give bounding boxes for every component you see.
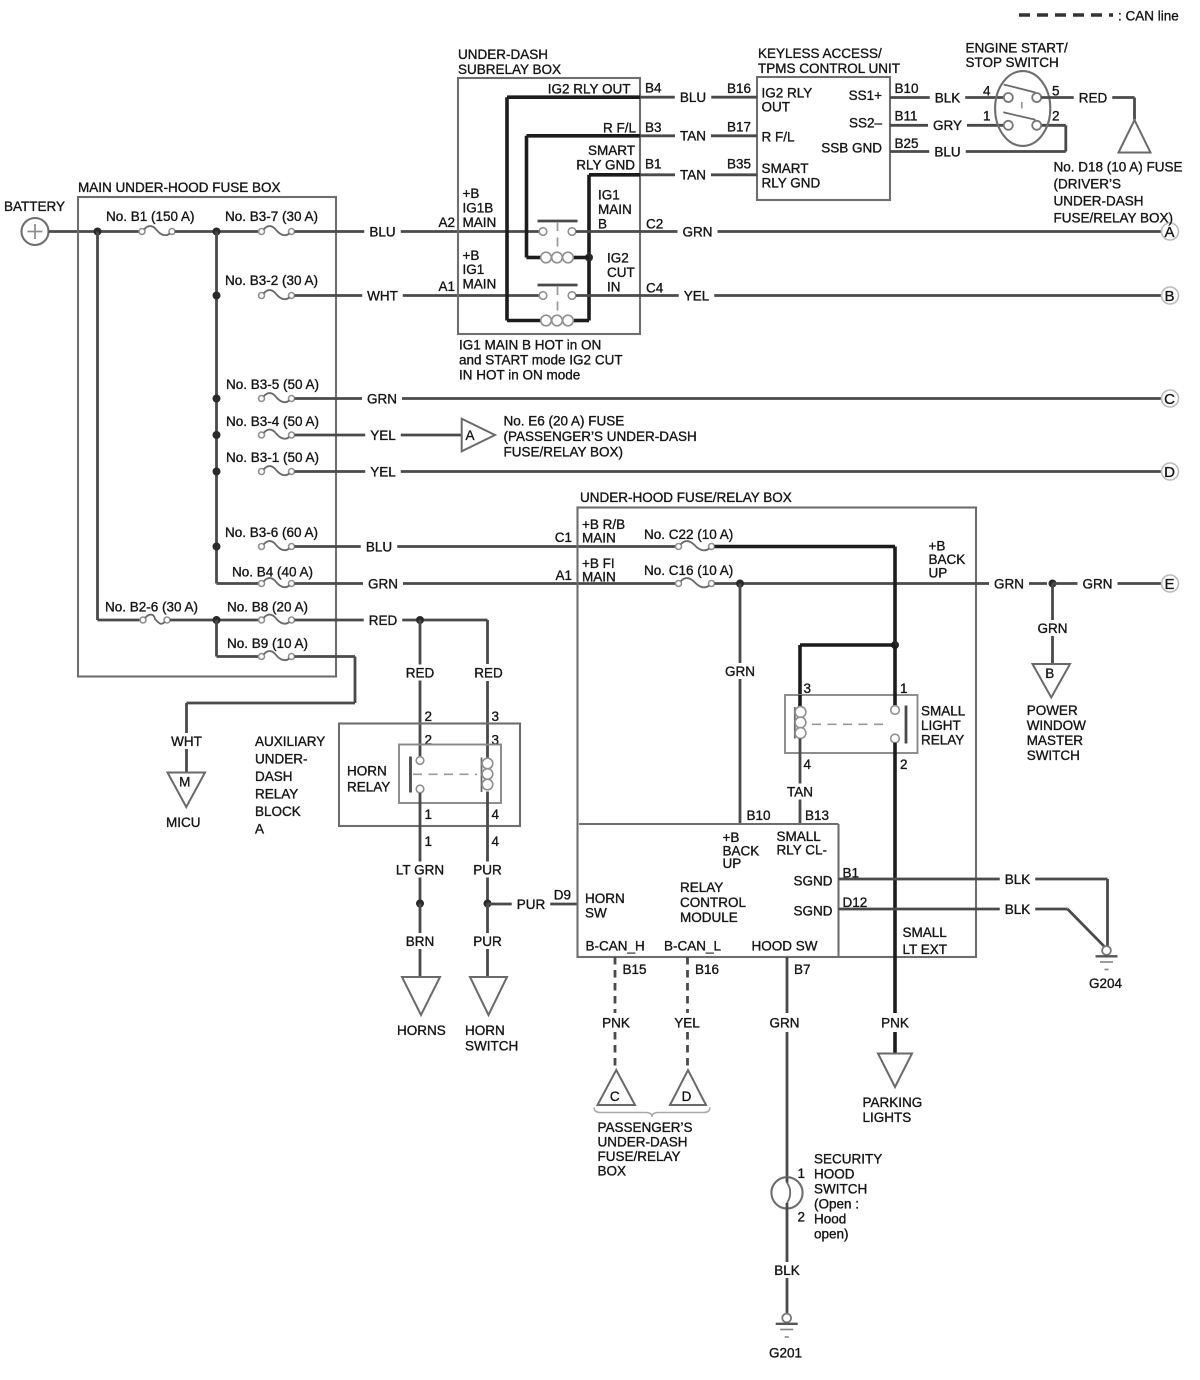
fuse B3-1 50A <box>259 469 265 475</box>
wire TAN relay pin4 to module B13 <box>799 753 802 784</box>
svg-text:MAIN: MAIN <box>582 570 616 585</box>
svg-text:SMART: SMART <box>588 143 635 158</box>
svg-text:RELAY: RELAY <box>680 880 723 895</box>
connector circle C <box>1162 390 1179 407</box>
svg-text:OUT: OUT <box>762 100 791 115</box>
connector triangle M MICU <box>168 773 206 808</box>
svg-text:YEL: YEL <box>674 1015 700 1030</box>
svg-text:FUSE/RELAY BOX): FUSE/RELAY BOX) <box>504 445 624 460</box>
wire GRY to switch pin 1 <box>890 124 928 127</box>
wire SGND BLK to ground <box>839 878 1000 881</box>
svg-text:PNK: PNK <box>602 1015 630 1030</box>
svg-text:1: 1 <box>798 1166 806 1181</box>
svg-text:MAIN: MAIN <box>582 531 616 546</box>
svg-text:BLOCK: BLOCK <box>255 804 301 819</box>
junction node horns <box>416 900 424 908</box>
connector triangle HORN SWITCH <box>470 977 507 1015</box>
wire B3-7 to A2 subrelay BLU <box>295 230 365 233</box>
svg-text:2: 2 <box>900 757 908 772</box>
svg-text:UNDER-: UNDER- <box>255 752 308 767</box>
junction node B3-4 <box>213 431 221 439</box>
svg-text:No. B3-2 (30 A): No. B3-2 (30 A) <box>225 273 318 288</box>
svg-text:D: D <box>682 1089 692 1104</box>
svg-text:RED: RED <box>474 665 503 680</box>
CAN line legend dashed sample <box>1019 13 1113 17</box>
svg-text:CONTROL: CONTROL <box>680 895 746 910</box>
svg-text:IG1 MAIN B HOT in ON: IG1 MAIN B HOT in ON <box>459 338 601 353</box>
switch pin 2 contact <box>1032 121 1041 130</box>
small light relay contact <box>893 645 897 706</box>
relay 2 coil <box>541 315 552 326</box>
vertical bus wire in fuse box <box>215 232 218 584</box>
svg-text:PNK: PNK <box>881 1015 909 1030</box>
svg-text:GRN: GRN <box>1038 621 1068 636</box>
junction node horn switch branch <box>484 900 492 908</box>
svg-text:MAIN: MAIN <box>598 202 632 217</box>
svg-text:2: 2 <box>798 1210 806 1225</box>
fuse B3-5 50A <box>259 396 265 402</box>
svg-text:HOOD: HOOD <box>814 1167 855 1182</box>
svg-text:BLK: BLK <box>774 1263 800 1278</box>
svg-text:B1: B1 <box>645 157 662 172</box>
svg-text:B17: B17 <box>727 120 751 135</box>
dark wire IG2 RLY OUT <box>507 95 640 99</box>
dark wire to relay pin 3 <box>800 643 895 647</box>
connector triangle C <box>598 1070 636 1105</box>
fuse B3-2 30A <box>259 293 265 299</box>
wire RED switch pin 5 to D18 fuse <box>1041 96 1074 99</box>
svg-text:MICU: MICU <box>166 815 201 830</box>
svg-text:UNDER-DASH: UNDER-DASH <box>1054 194 1144 209</box>
svg-text:M: M <box>179 775 190 790</box>
svg-text:GRN: GRN <box>367 391 397 406</box>
svg-text:RLY GND: RLY GND <box>762 176 821 191</box>
svg-text:B4: B4 <box>645 81 662 96</box>
wire relay1 to C2 GRN connector A <box>576 230 678 233</box>
svg-text:No. B1 (150 A): No. B1 (150 A) <box>106 209 195 224</box>
svg-text:B11: B11 <box>895 109 918 124</box>
svg-text:BLK: BLK <box>1005 902 1031 917</box>
junction node RED split <box>416 616 424 624</box>
svg-text:C2: C2 <box>646 217 663 232</box>
svg-text:B10: B10 <box>895 81 919 96</box>
connector circle E <box>1162 575 1179 592</box>
svg-text:IG1: IG1 <box>463 262 485 277</box>
switch pin 1 contact <box>1004 121 1013 130</box>
svg-text:A1: A1 <box>438 279 455 294</box>
svg-text:SUBRELAY BOX: SUBRELAY BOX <box>458 62 561 77</box>
svg-text:IG2 RLY OUT: IG2 RLY OUT <box>548 82 631 97</box>
junction node B3-6 <box>213 543 221 551</box>
svg-text:RELAY: RELAY <box>255 787 298 802</box>
wire BLK to ground G201 <box>786 1203 789 1262</box>
svg-text:A: A <box>255 822 264 837</box>
svg-text:GRN: GRN <box>725 664 755 679</box>
horn relay box <box>399 745 501 804</box>
under-dash subrelay box <box>458 78 640 334</box>
svg-text:SMALL: SMALL <box>903 925 948 940</box>
svg-text:No. C16 (10 A): No. C16 (10 A) <box>644 563 733 578</box>
svg-text:No. B9 (10 A): No. B9 (10 A) <box>227 636 308 651</box>
relay 2 coil wires <box>574 319 590 323</box>
svg-text:GRN: GRN <box>994 576 1024 591</box>
wire LT GRN from horn relay pin 1 <box>419 793 422 862</box>
svg-text:No. E6 (20 A) FUSE: No. E6 (20 A) FUSE <box>504 414 625 429</box>
wire WHT down to MICU <box>185 703 188 733</box>
svg-text:UNDER-HOOD FUSE/RELAY BOX: UNDER-HOOD FUSE/RELAY BOX <box>580 490 792 505</box>
svg-text:No. B2-6 (30 A): No. B2-6 (30 A) <box>105 600 198 615</box>
svg-text:GRY: GRY <box>933 118 962 133</box>
svg-text:TAN: TAN <box>680 168 706 183</box>
svg-text:B7: B7 <box>794 962 811 977</box>
svg-text:PASSENGER’S: PASSENGER’S <box>598 1120 693 1135</box>
connector circle B <box>1162 287 1179 304</box>
wire GRN to power window master switch <box>976 582 989 585</box>
svg-text:B3: B3 <box>645 120 662 135</box>
ground G201 <box>782 1314 791 1323</box>
svg-text:BLU: BLU <box>680 90 706 105</box>
wire B3-2 to A1 subrelay WHT <box>295 294 363 297</box>
fuse B2-6 30A <box>98 619 141 622</box>
svg-text:YEL: YEL <box>370 464 396 479</box>
svg-text:RELAY: RELAY <box>347 780 390 795</box>
svg-text:LIGHT: LIGHT <box>921 718 961 733</box>
svg-text:UP: UP <box>929 566 948 581</box>
svg-text:WHT: WHT <box>367 288 398 303</box>
svg-text:B16: B16 <box>695 962 719 977</box>
wire PUR from horn relay pin 4 <box>486 792 489 862</box>
svg-text:PUR: PUR <box>473 934 502 949</box>
svg-text:GRN: GRN <box>770 1015 800 1030</box>
junction node E row <box>1049 580 1057 588</box>
connector circle D <box>1162 463 1179 480</box>
svg-text:TAN: TAN <box>787 784 813 799</box>
svg-text:POWER: POWER <box>1027 703 1078 718</box>
svg-text:B25: B25 <box>895 136 919 151</box>
svg-text:No. B3-7 (30 A): No. B3-7 (30 A) <box>225 209 318 224</box>
wire B3-6 BLU to C1 under-hood box <box>295 545 361 548</box>
relay 2 IG2 CUT IN contacts <box>538 284 578 287</box>
svg-text:KEYLESS ACCESS/: KEYLESS ACCESS/ <box>758 46 882 61</box>
svg-text:LT EXT: LT EXT <box>903 942 948 957</box>
fuse B8 20A <box>259 617 265 623</box>
junction node B3-1 <box>213 468 221 476</box>
svg-text:A: A <box>465 428 474 443</box>
svg-text:MAIN: MAIN <box>463 277 497 292</box>
svg-text:DASH: DASH <box>255 769 293 784</box>
svg-text:GRN: GRN <box>683 224 713 239</box>
switch blade bottom <box>1003 112 1035 120</box>
svg-text:G201: G201 <box>769 1346 802 1361</box>
dashed CAN wire B16 YEL <box>686 957 689 1013</box>
svg-text:4: 4 <box>492 807 500 822</box>
svg-text:open): open) <box>814 1227 849 1242</box>
small light relay dashed link <box>812 723 888 725</box>
svg-text:RED: RED <box>406 665 435 680</box>
svg-text:ENGINE START/: ENGINE START/ <box>966 41 1069 56</box>
connector triangle D <box>670 1070 706 1105</box>
svg-text:4: 4 <box>804 757 812 772</box>
svg-text:AUXILIARY: AUXILIARY <box>255 734 325 749</box>
svg-text:PARKING: PARKING <box>863 1095 923 1110</box>
svg-text:B: B <box>1045 666 1054 681</box>
svg-text:HORNS: HORNS <box>397 1023 446 1038</box>
svg-text:RED: RED <box>1079 90 1108 105</box>
wire RED down to horn relay pin 2 <box>419 620 422 665</box>
connector triangle PARKING LIGHTS <box>878 1054 912 1088</box>
fuse B9 10A <box>259 654 265 660</box>
svg-text:2: 2 <box>1052 109 1060 124</box>
svg-text:G204: G204 <box>1089 976 1123 991</box>
svg-text:GRN: GRN <box>368 576 398 591</box>
junction node coil return <box>585 254 593 262</box>
relay control module box <box>579 823 839 825</box>
wire GRN to module B10 <box>739 584 742 664</box>
connector circle A <box>1162 223 1179 240</box>
svg-text:1: 1 <box>425 807 433 822</box>
svg-text:BOX: BOX <box>598 1164 627 1179</box>
wire BLU to switch pin 2 <box>890 150 929 153</box>
switch link dash <box>1021 102 1023 109</box>
wire BLK to switch pin 4 <box>890 96 930 99</box>
svg-text:4: 4 <box>492 834 500 849</box>
svg-text:MAIN: MAIN <box>463 215 497 230</box>
switch pin 4 contact <box>1004 93 1013 102</box>
svg-text:A: A <box>1164 224 1174 241</box>
svg-text:SMALL: SMALL <box>921 704 966 719</box>
vertical wire to B9 <box>215 620 218 657</box>
svg-text:B35: B35 <box>727 157 751 172</box>
svg-text:B-CAN_H: B-CAN_H <box>586 939 645 954</box>
fuse B3-7 30A <box>259 229 265 235</box>
svg-text:No. B3-5 (50 A): No. B3-5 (50 A) <box>226 377 319 392</box>
svg-text:3: 3 <box>804 681 812 696</box>
horn relay dashed link <box>413 773 477 775</box>
svg-text:LIGHTS: LIGHTS <box>863 1110 912 1125</box>
svg-text:UNDER-DASH: UNDER-DASH <box>598 1135 688 1150</box>
switch pin 5 contact <box>1032 93 1041 102</box>
svg-text:RLY CL-: RLY CL- <box>777 843 828 858</box>
horn relay coil <box>481 758 483 793</box>
wire B8 RED to horn relay branch <box>295 619 364 622</box>
svg-text:IG1: IG1 <box>598 188 620 203</box>
small light relay coil <box>798 695 802 707</box>
svg-text:C: C <box>610 1089 620 1104</box>
horn relay contact circles <box>416 757 424 765</box>
svg-text:RED: RED <box>369 613 398 628</box>
svg-text:MAIN UNDER-HOOD FUSE BOX: MAIN UNDER-HOOD FUSE BOX <box>78 180 281 195</box>
svg-text:STOP SWITCH: STOP SWITCH <box>966 55 1059 70</box>
svg-text:BATTERY: BATTERY <box>4 199 65 214</box>
svg-text:IG2 RLY: IG2 RLY <box>762 86 813 101</box>
svg-text:MODULE: MODULE <box>680 910 738 925</box>
svg-text:HORN: HORN <box>585 891 625 906</box>
svg-text:(Open :: (Open : <box>814 1197 859 1212</box>
wire corner into B4 fuse <box>217 582 259 585</box>
connector triangle D18 fuse <box>1119 120 1151 153</box>
svg-text:FUSE/RELAY: FUSE/RELAY <box>598 1149 681 1164</box>
wire relay2 to C4 YEL connector B <box>576 294 679 297</box>
fuse C22 10A <box>676 544 682 550</box>
wire B3-1 YEL to connector D <box>295 470 366 473</box>
wire battery to fuse B1 <box>49 230 140 233</box>
junction node B3-5 <box>213 395 221 403</box>
horn relay armature bar <box>409 757 412 793</box>
svg-text:HORN: HORN <box>465 1023 505 1038</box>
fuse B3-4 50A <box>259 432 265 438</box>
keyless access TPMS control unit box <box>757 77 890 200</box>
wire B3-4 YEL to fuse E6 arrow <box>295 434 366 437</box>
wire B1 to B3-7 <box>175 230 259 233</box>
svg-text:2: 2 <box>425 709 433 724</box>
svg-text:Hood: Hood <box>814 1212 846 1227</box>
svg-text:SWITCH: SWITCH <box>465 1039 518 1054</box>
relay 1 coil wires <box>574 256 590 260</box>
svg-text:HORN: HORN <box>347 764 387 779</box>
auxiliary relay block box <box>339 724 520 827</box>
svg-text:4: 4 <box>983 84 991 99</box>
wire B2-6 to junction <box>170 619 259 622</box>
small light relay box <box>785 695 918 753</box>
svg-text:WHT: WHT <box>171 734 202 749</box>
svg-text:D: D <box>1164 464 1175 481</box>
underbrace passenger box <box>594 1108 710 1118</box>
under-hood fuse/relay box <box>578 508 977 958</box>
wire RED down to horn relay pin 3 <box>486 620 489 664</box>
svg-text:BLU: BLU <box>369 224 395 239</box>
junction node B8 branch <box>213 616 221 624</box>
svg-text:C: C <box>1164 391 1175 408</box>
svg-text:LT GRN: LT GRN <box>396 862 444 877</box>
svg-text:1: 1 <box>425 834 433 849</box>
battery positive terminal symbol <box>22 218 49 245</box>
svg-text:CUT: CUT <box>607 265 635 280</box>
svg-text:WINDOW: WINDOW <box>1027 718 1086 733</box>
svg-text:B10: B10 <box>747 808 771 823</box>
svg-text:FUSE/RELAY BOX): FUSE/RELAY BOX) <box>1054 211 1174 226</box>
relay 1 IG1 MAIN B contacts <box>538 220 578 223</box>
connector triangle B power window <box>1033 664 1071 698</box>
junction node battery feed <box>94 228 102 236</box>
left vertical wire to B2-6 <box>96 232 99 621</box>
svg-text:A2: A2 <box>438 215 455 230</box>
svg-text:B: B <box>1164 288 1174 305</box>
svg-text:YEL: YEL <box>370 428 396 443</box>
svg-text:B13: B13 <box>805 808 829 823</box>
svg-text:B15: B15 <box>623 962 647 977</box>
svg-text:+B: +B <box>463 248 480 263</box>
connector triangle HORNS <box>402 977 440 1015</box>
wire PUR to horn switch <box>486 904 489 934</box>
fuse B4 40A <box>259 581 265 587</box>
junction node B3-2 <box>213 292 221 300</box>
svg-text:B-CAN_L: B-CAN_L <box>664 939 722 954</box>
svg-text:SS1+: SS1+ <box>849 88 883 103</box>
svg-text:No. D18 (10 A) FUSE: No. D18 (10 A) FUSE <box>1054 160 1183 175</box>
svg-text:TPMS CONTROL UNIT: TPMS CONTROL UNIT <box>758 61 900 76</box>
connector triangle A to E6 fuse <box>462 419 495 452</box>
svg-text:YEL: YEL <box>684 288 710 303</box>
svg-text:SMART: SMART <box>762 161 809 176</box>
dark wire R F/L <box>527 134 641 138</box>
svg-text:PUR: PUR <box>517 897 546 912</box>
svg-text:SWITCH: SWITCH <box>814 1182 867 1197</box>
wire GRN hood switch <box>786 957 789 1013</box>
dark wire small light ext down to parking lights <box>893 743 897 1013</box>
svg-text:and START mode IG2 CUT: and START mode IG2 CUT <box>459 353 623 368</box>
junction node relay feed <box>891 641 899 649</box>
svg-text:: CAN line: : CAN line <box>1118 9 1179 24</box>
wire PUR to relay control module D9 <box>488 903 512 906</box>
svg-text:BRN: BRN <box>406 934 435 949</box>
svg-text:D9: D9 <box>554 888 571 903</box>
svg-text:E: E <box>1164 576 1174 593</box>
svg-text:SGND: SGND <box>793 904 832 919</box>
wire C16 to box edge <box>715 582 977 585</box>
svg-text:SECURITY: SECURITY <box>814 1152 882 1167</box>
dark wire C22 to small light relay <box>715 545 896 549</box>
svg-text:A1: A1 <box>555 568 572 583</box>
wire BRN to horns <box>419 904 422 934</box>
main under-hood fuse box <box>78 197 336 677</box>
security hood switch <box>771 1177 802 1208</box>
svg-text:B16: B16 <box>727 81 751 96</box>
svg-text:3: 3 <box>492 709 500 724</box>
svg-text:B: B <box>598 217 607 232</box>
svg-text:SW: SW <box>585 906 607 921</box>
svg-text:1: 1 <box>900 681 908 696</box>
svg-text:BLU: BLU <box>934 144 960 159</box>
wire GRN down to triangle B <box>1051 584 1054 621</box>
svg-text:No. B4 (40 A): No. B4 (40 A) <box>232 565 313 580</box>
svg-text:UP: UP <box>723 856 742 871</box>
svg-text:No. B8 (20 A): No. B8 (20 A) <box>227 600 308 615</box>
wire B9 to MICU <box>295 655 356 658</box>
svg-text:R F/L: R F/L <box>603 121 636 136</box>
svg-text:SSB GND: SSB GND <box>821 141 882 156</box>
svg-text:BLU: BLU <box>366 539 392 554</box>
svg-text:RELAY: RELAY <box>921 733 964 748</box>
ground G204 <box>1102 946 1111 955</box>
svg-text:IN: IN <box>607 280 621 295</box>
fuse B3-6 60A <box>259 544 265 550</box>
svg-text:IG1B: IG1B <box>463 201 494 216</box>
svg-text:No. B3-1 (50 A): No. B3-1 (50 A) <box>226 450 319 465</box>
svg-text:No. B3-6 (60 A): No. B3-6 (60 A) <box>225 525 318 540</box>
svg-text:PUR: PUR <box>473 862 502 877</box>
dark wire SMART RLY GND <box>589 173 640 177</box>
fuse C16 10A <box>676 581 682 587</box>
relay 1 coil <box>541 252 552 263</box>
fuse B1 150A <box>139 229 145 235</box>
svg-text:MASTER: MASTER <box>1027 733 1084 748</box>
svg-text:IG2: IG2 <box>607 251 629 266</box>
svg-text:TAN: TAN <box>680 129 706 144</box>
junction node GRN module feed <box>736 580 744 588</box>
wire TAN B1 to B35 <box>640 173 675 176</box>
svg-text:1: 1 <box>983 109 991 124</box>
svg-text:HOOD SW: HOOD SW <box>752 939 818 954</box>
svg-text:BLK: BLK <box>1005 872 1031 887</box>
junction node main bus <box>213 228 221 236</box>
wire TAN B3 to B17 <box>640 134 675 137</box>
engine start stop switch body <box>995 71 1050 146</box>
wire corner into B9 fuse <box>217 655 259 658</box>
switch blade top <box>1004 85 1036 93</box>
svg-text:+B: +B <box>463 186 480 201</box>
svg-text:(DRIVER’S: (DRIVER’S <box>1054 177 1122 192</box>
dashed CAN wire B15 PNK <box>614 957 617 1013</box>
